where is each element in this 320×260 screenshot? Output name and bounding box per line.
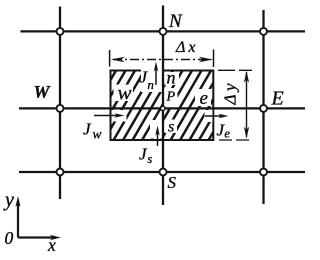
flux arrow J_w (west face, rightward) [94,113,125,117]
svg-text:0: 0 [5,228,14,248]
dimension Δx right extension tick [213,50,215,68]
white patch for flux J_n [141,64,163,92]
white patch for face label e [195,89,211,106]
svg-text:e: e [200,88,208,109]
white patch for label P [164,88,178,108]
node W [57,105,64,112]
flux arrow J_n (north face, upward) [154,62,158,86]
white patch for flux J_s [150,120,163,139]
node SE [260,169,267,176]
white patch for face label s [165,120,178,134]
coordinate axis x (horizontal arrow) [18,235,61,240]
node NW [57,28,64,35]
svg-text:n: n [167,68,176,88]
svg-text:y: y [3,189,14,211]
svg-text:N: N [168,11,183,32]
svg-text:s: s [168,119,174,136]
grid horizontal line top [21,30,306,32]
dimension Δy vertical line [246,72,248,137]
white patch for face label n [165,72,180,85]
flux arrow J_e (east face, rightward) [205,114,229,118]
grid vertical line west column [59,7,61,200]
grid vertical line center column [162,6,164,206]
svg-text:W: W [34,82,52,102]
flux arrow J_s (south face, upward) [155,126,159,147]
node E [260,105,267,112]
dimension Δx left extension tick [109,50,111,67]
svg-text:x: x [47,235,56,255]
svg-text:E: E [271,88,284,110]
grid vertical line east column [262,10,264,204]
dimension Δy bottom arrowhead [244,127,249,139]
dimension Δy top arrowhead [244,71,249,83]
control volume hatching [66,71,249,141]
svg-text:Δx: Δx [175,39,199,56]
node NE [260,28,267,35]
svg-text:w: w [118,81,132,105]
grid horizontal line bottom [19,171,305,173]
svg-text:Δy: Δy [221,80,240,106]
grid horizontal line middle [19,107,305,109]
node N [160,28,167,35]
dimension Δx right arrowhead [199,57,213,62]
white patch for flux J_w [112,110,127,122]
control volume border [111,71,214,141]
node SW [57,169,64,176]
dimension Δx dash-dot line [113,59,211,61]
dimension Δy bottom extension dash [219,139,252,141]
white patch for label w [114,85,134,102]
node S [160,169,167,176]
svg-text:P: P [166,90,176,105]
dimension Δy top extension dash [218,69,252,71]
svg-text:S: S [168,173,177,192]
white patch for flux J_e [205,110,213,122]
node P (grid point P) [161,106,165,110]
dimension Δx left arrowhead [111,57,125,62]
coordinate axis y (vertical arrow) [15,196,20,238]
